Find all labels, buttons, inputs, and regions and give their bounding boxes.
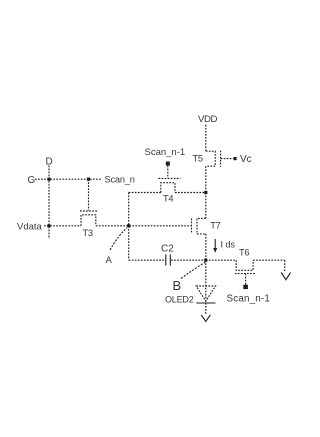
wire T4 row right <box>175 192 206 194</box>
wire VDD drop <box>205 125 207 151</box>
ground arrow right <box>281 272 290 279</box>
wire G to Scan_n <box>35 178 102 180</box>
svg-text:T6: T6 <box>239 248 249 258</box>
ground arrow bottom <box>201 315 210 322</box>
wire T6 gate stem <box>245 274 247 285</box>
transistor T5 <box>206 151 221 167</box>
terminal Scan_n-1 (bottom) <box>243 285 248 289</box>
terminal Vc <box>233 157 236 160</box>
svg-text:C2: C2 <box>161 244 174 255</box>
junction dot node B <box>204 259 207 262</box>
junction dot D-G <box>47 178 50 181</box>
svg-text:T7: T7 <box>210 221 220 231</box>
transistor T7 <box>192 218 206 234</box>
junction dot T4 row <box>204 191 207 194</box>
wire D vertical <box>48 166 50 240</box>
wire node A column <box>128 193 130 261</box>
svg-text:Vc: Vc <box>240 154 252 165</box>
wire T4 gate stem <box>167 166 169 179</box>
wire Vdata horizontal <box>44 225 191 227</box>
svg-text:B: B <box>173 278 182 293</box>
wire A to C2 <box>129 259 165 261</box>
svg-text:I ds: I ds <box>221 240 236 250</box>
capacitor C2 <box>166 254 171 265</box>
leader node A <box>110 228 127 250</box>
wire C2 to node B <box>171 259 206 261</box>
wire node B to T6 <box>206 259 236 261</box>
wire T5 gate to Vc <box>221 158 233 160</box>
transistor T3 <box>80 211 97 226</box>
svg-text:Scan_n-1: Scan_n-1 <box>227 294 271 305</box>
junction dot node A <box>127 224 130 227</box>
svg-text:A: A <box>106 255 113 266</box>
diode OLED2 <box>196 286 215 301</box>
svg-text:OLED2: OLED2 <box>165 295 194 305</box>
wire main vertical T7 to node B <box>205 234 207 260</box>
wire node B down to OLED <box>205 260 207 315</box>
wire T6 to right ground <box>253 260 285 272</box>
wire T3 gate stem <box>88 179 90 210</box>
current arrow Ids <box>214 239 216 249</box>
svg-text:Scan_n: Scan_n <box>105 175 135 185</box>
junction dot D-Vdata <box>47 224 50 227</box>
wire T4 row left <box>129 192 161 194</box>
leader node B <box>181 262 206 279</box>
svg-text:VDD: VDD <box>198 114 218 125</box>
transistor T6 <box>235 260 256 273</box>
transistor T4 <box>159 178 181 192</box>
svg-text:T3: T3 <box>83 228 93 238</box>
svg-text:Vdata: Vdata <box>17 222 43 233</box>
svg-text:G: G <box>28 175 36 186</box>
wire main vertical T4 to T7 <box>205 193 207 219</box>
svg-text:T4: T4 <box>163 194 173 204</box>
junction dot T3 gate on Scan_n line <box>87 178 90 181</box>
svg-text:T5: T5 <box>193 154 203 164</box>
svg-text:Scan_n-1: Scan_n-1 <box>145 147 186 158</box>
wire main vertical T5 to T4 row <box>205 166 207 192</box>
